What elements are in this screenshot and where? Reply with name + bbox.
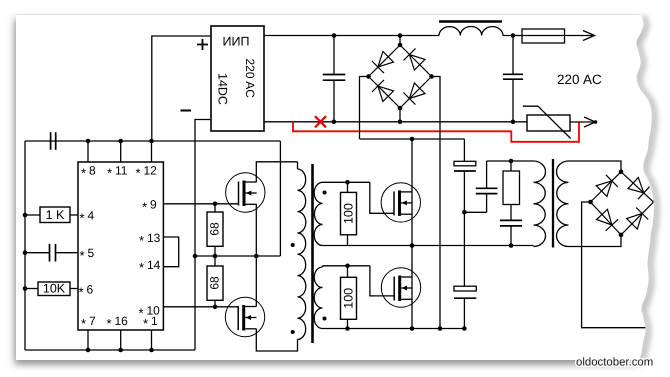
node VD1 left (366, 74, 371, 79)
T1 secondary B polarity dot (323, 317, 327, 321)
wire M3/M4 drain-source line (411, 139, 413, 329)
node fuse branch (511, 33, 516, 38)
node R7 top (345, 264, 350, 269)
transformer T2 primary (534, 161, 546, 247)
pin 8 stub (87, 141, 89, 162)
node pin8 (86, 139, 91, 144)
svg-text:1 K: 1 K (46, 208, 65, 222)
T1 primary polarity dot lower (291, 330, 295, 334)
thermistor RT1 diagonal (538, 106, 571, 138)
wire thermistor out (570, 121, 595, 123)
node pin1 (149, 348, 154, 353)
T1 secondary A polarity dot (323, 191, 327, 195)
pin 11 stub (120, 141, 122, 162)
node C2 left (23, 250, 28, 255)
svg-text:*: * (80, 211, 85, 226)
node snubber top (509, 159, 514, 164)
wire T2 sec bottom to VD2 (569, 235, 622, 247)
wire source rail (323, 328, 465, 330)
node source rail C10 (462, 326, 467, 331)
node VD1 bottom (398, 106, 403, 111)
capacitor C6 (512, 36, 514, 75)
transistor Q4 (lower power MOSFET) (381, 268, 420, 307)
diode VD1.3 (378, 86, 394, 102)
svg-text:*: * (139, 233, 144, 248)
wire from U2 - output (195, 120, 211, 351)
transistor Q1 (upper driver MOSFET) (226, 173, 265, 212)
node pin11 (118, 139, 123, 144)
wire M3 gate path (370, 182, 394, 213)
node mid rail M1M2 (254, 254, 259, 259)
transformer T1 core (311, 164, 314, 343)
svg-text:*: * (139, 260, 144, 275)
svg-text:220: 220 (557, 72, 580, 87)
svg-text:4: 4 (88, 209, 95, 223)
svg-text:11: 11 (115, 164, 128, 178)
svg-text:5: 5 (88, 246, 95, 260)
thermistor RT1 body (527, 115, 570, 131)
IC U1 body (78, 162, 163, 330)
power module U2 (switching supply) box (211, 26, 264, 131)
svg-text:10K: 10K (43, 282, 66, 296)
svg-text:*: * (143, 316, 148, 331)
T1 primary polarity dot upper (291, 243, 295, 247)
node VD2 left (588, 200, 593, 205)
svg-text:oldoctober.com: oldoctober.com (576, 357, 653, 369)
capacitor C5 (333, 36, 335, 75)
wire Vcc drop to mid rail (279, 141, 281, 256)
node R2 left (23, 286, 28, 291)
svg-text:6: 6 (87, 283, 94, 297)
node bridge VD1 bottom feed (398, 120, 403, 125)
wire Q2 source to T1 primary bottom (256, 329, 297, 351)
wire sec B top rail (323, 265, 370, 267)
wire Vcc rail (25, 140, 280, 142)
wire T2 sec top to VD2 (569, 161, 622, 172)
snubber capacitor C9 (500, 219, 522, 221)
diode VD1.2 (409, 55, 425, 71)
plus terminal label (197, 44, 208, 46)
svg-text:100: 100 (342, 203, 356, 224)
capacitor C2 (49, 244, 51, 262)
svg-text:12: 12 (144, 164, 158, 178)
node mid snubber (509, 243, 514, 248)
svg-text:*: * (81, 316, 86, 331)
wire R7 bottom (347, 319, 349, 328)
node gate resistor R3 top (213, 202, 218, 207)
diode VD1.4 (409, 83, 425, 99)
wire bridge bottom connector (399, 108, 401, 122)
arrow to 220AC line (583, 31, 595, 41)
node mid rail R3R4 (213, 254, 218, 259)
node pin12 (149, 139, 154, 144)
svg-text:*: * (107, 316, 112, 331)
svg-text:68: 68 (208, 276, 222, 290)
wire ground rail bottom (25, 349, 195, 351)
node mid M3M4 (410, 243, 415, 248)
wire R6 bottom (347, 235, 349, 246)
resistor R1 1K (40, 207, 70, 223)
resistor R7 100 (347, 266, 349, 278)
diode VD2.4 (627, 214, 643, 230)
svg-text:220 AC: 220 AC (243, 59, 257, 99)
node VD2 bottom (619, 233, 624, 238)
svg-text:*: * (107, 166, 112, 181)
inductor L1 (439, 26, 503, 35)
svg-text:14DC: 14DC (216, 73, 230, 105)
resistor R4 68 (214, 300, 216, 307)
resistor R3 68 (214, 204, 216, 212)
node VD1 right (429, 74, 434, 79)
wire primary top rail (487, 160, 534, 162)
bridge VD2 frame (591, 172, 654, 235)
svg-text:*: * (142, 200, 147, 215)
pins 13-14 loop (163, 237, 178, 267)
svg-text:9: 9 (150, 198, 157, 212)
svg-text:14: 14 (147, 258, 161, 272)
capacitor C8 (DC block) (486, 194, 488, 213)
svg-text:8: 8 (89, 164, 96, 178)
transformer T2 core (552, 159, 554, 248)
wire left vertical (24, 141, 26, 350)
node VD1 top (398, 43, 403, 48)
wire R1 left (25, 214, 40, 216)
transformer T1 secondary B (314, 267, 322, 329)
svg-text:*: * (136, 166, 141, 181)
diode VD2.3 (597, 209, 612, 225)
wire Q1 drain to T1 primary (256, 162, 297, 182)
wire pin10 to M2 gate (163, 306, 238, 308)
pin 1 stub (151, 330, 153, 350)
bridge VD1 frame (369, 45, 432, 108)
wire bridge top connector (399, 36, 401, 46)
svg-text:AC: AC (583, 72, 602, 87)
wire R2 left (25, 288, 38, 290)
svg-text:10: 10 (147, 304, 161, 318)
node bridge VD1 top feed (398, 33, 403, 38)
node M3 drain (410, 137, 415, 142)
diode VD1.1 (378, 52, 394, 68)
inductor L1 core bar (439, 20, 502, 23)
transistor Q3 (upper power MOSFET) (381, 183, 420, 222)
svg-text:16: 16 (115, 314, 129, 328)
svg-text:ИИП: ИИП (223, 35, 250, 49)
wire AC line from U2 right (264, 35, 439, 37)
capacitor C10 (lower bus) (454, 286, 476, 291)
svg-text:*: * (80, 248, 85, 263)
wire VD1 left leg (360, 77, 369, 140)
red cut mark X (315, 116, 326, 127)
wire to DC-block cap (464, 211, 486, 213)
node cap C5 top (332, 33, 337, 38)
node C6 bottom (511, 120, 516, 125)
wire sec A top rail (323, 181, 370, 183)
transformer T1 secondary A (314, 182, 322, 245)
wire M4 gate path (370, 266, 394, 296)
capacitor C7 (upper bus) (463, 139, 465, 161)
arrow to 220AC neutral (584, 117, 596, 127)
resistor R2 10K (38, 282, 70, 296)
wire +DC rail (360, 138, 465, 140)
pin 12 stub (151, 141, 153, 162)
wire Q1 source to Q2 drain (255, 204, 257, 306)
svg-text:*: * (139, 306, 144, 321)
diode VD2.1 (596, 181, 612, 197)
transistor Q2 (lower driver MOSFET) (225, 297, 264, 336)
wire AC neutral from U2 right (264, 121, 527, 123)
node source rail VD1 leg (438, 326, 443, 331)
diode VD2.2 (628, 178, 644, 193)
svg-text:*: * (81, 166, 86, 181)
pin 16 stub (120, 330, 122, 350)
node C5 bottom (332, 120, 337, 125)
wire half-bridge mid rail (323, 245, 534, 247)
svg-text:100: 100 (342, 288, 356, 309)
wire inductor to fuse node (503, 35, 522, 37)
wire VD1 right leg (432, 77, 441, 329)
svg-text:*: * (79, 285, 84, 300)
wire fuse through and out (522, 35, 594, 37)
node source rail M4 (410, 326, 415, 331)
svg-text:68: 68 (208, 222, 222, 236)
node DC-block branch (462, 210, 467, 215)
node pin16 (118, 348, 123, 353)
node pin7 (86, 348, 91, 353)
pin 7 stub (87, 330, 89, 350)
wire mid rail (195, 255, 280, 257)
wire R2 right (70, 288, 78, 290)
node R6 top (345, 180, 350, 185)
resistor R6 100 (347, 182, 349, 192)
node VD2 top (619, 170, 624, 175)
node R1 left (23, 213, 28, 218)
fuse FU1 body (522, 29, 565, 43)
node mid rail left (193, 254, 198, 259)
wire R1 right (70, 214, 78, 216)
transformer T1 primary (297, 162, 299, 169)
wire VD2 output (582, 202, 656, 328)
wire pin9 to M1 gate (163, 203, 238, 205)
node gate resistor R4 bottom (213, 305, 218, 310)
transformer T2 secondary (556, 161, 568, 247)
capacitor C1 (50, 132, 52, 150)
svg-text:13: 13 (147, 231, 161, 245)
red jumper wire (293, 122, 579, 142)
svg-text:7: 7 (89, 314, 96, 328)
wire from U2 + output (152, 36, 211, 141)
minus terminal label (181, 110, 192, 112)
node source rail R7 (345, 326, 350, 331)
snubber resistor R5 (510, 161, 512, 171)
